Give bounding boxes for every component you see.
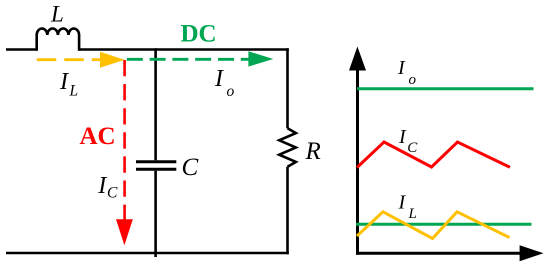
IL average line (green): [356, 223, 532, 226]
svg-text:I: I: [397, 57, 406, 79]
current arrow I_L (yellow dashed): [37, 52, 125, 68]
svg-text:I: I: [97, 173, 107, 199]
svg-text:I: I: [59, 69, 69, 95]
wire top-left segment: [6, 48, 37, 51]
chart x-axis: [356, 245, 544, 261]
svg-text:o: o: [409, 72, 417, 88]
svg-text:DC: DC: [181, 20, 217, 47]
inductor L: [37, 28, 79, 50]
resistor R: [279, 128, 296, 167]
Ic waveform (red ripple): [357, 142, 510, 168]
wire top-right segment: [79, 48, 289, 51]
wire bottom: [6, 252, 289, 255]
current arrow AC / I_C (red dashed): [116, 60, 133, 245]
svg-text:AC: AC: [80, 123, 116, 150]
svg-text:o: o: [227, 83, 235, 100]
svg-text:R: R: [305, 138, 321, 165]
svg-text:L: L: [50, 1, 64, 26]
wire capacitor branch lower: [154, 171, 157, 257]
wire right branch upper: [286, 48, 289, 128]
svg-text:C: C: [182, 154, 199, 181]
svg-text:C: C: [107, 185, 118, 202]
svg-text:I: I: [398, 192, 407, 214]
Io waveform (green flat line): [357, 87, 534, 90]
svg-text:L: L: [69, 83, 79, 100]
wire capacitor branch upper: [154, 48, 157, 160]
svg-text:L: L: [408, 206, 417, 222]
current arrow DC / I_o (green dashed): [127, 51, 273, 66]
svg-text:I: I: [398, 126, 407, 148]
chart y-axis: [349, 47, 366, 255]
svg-text:C: C: [407, 140, 418, 156]
svg-text:I: I: [214, 66, 224, 92]
wire right branch lower: [286, 167, 289, 255]
IL waveform (yellow ripple): [357, 212, 510, 239]
capacitor C: [136, 162, 176, 169]
